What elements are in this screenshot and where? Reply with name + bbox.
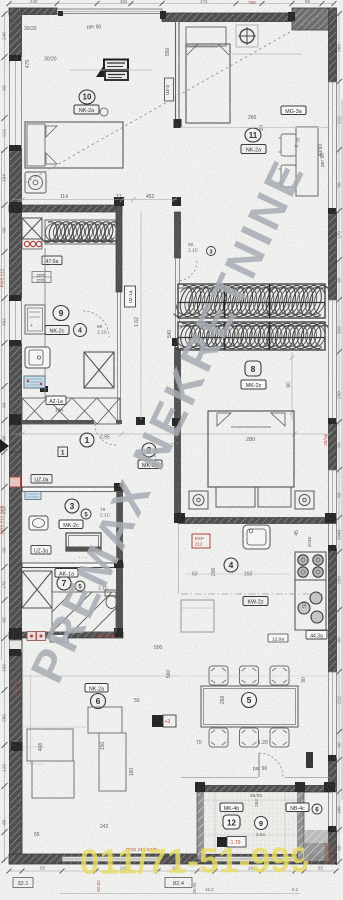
small tag circle right strip <box>312 804 322 814</box>
junction room10/11 divider foot <box>174 119 182 128</box>
brown speckle strip bottom-right wall <box>325 843 333 864</box>
interior wall room10/kitchen horizontal <box>9 205 122 212</box>
bathtub <box>66 533 101 560</box>
bed room 11 headboard <box>186 27 226 46</box>
living room west guide line <box>178 523 180 594</box>
kitchen top crossed box (shaft) <box>22 218 42 239</box>
bedroom/livingroom horizontal wall <box>178 518 336 524</box>
small spec boxes 1555 <box>32 272 51 283</box>
inner edge line left wall lower <box>22 638 24 854</box>
shower crossed box <box>22 571 52 608</box>
washing machine blue kitchen <box>24 376 45 388</box>
bedroom-side corridor wall vertical upper <box>175 212 181 258</box>
services block right wall lower <box>117 487 123 638</box>
terrace guide lines <box>204 792 298 854</box>
terrace top wall <box>197 786 331 793</box>
dashed diagonal construction line <box>25 8 332 183</box>
kitchen door dim text <box>55 324 108 414</box>
room 2 name box MK-2b <box>138 460 162 469</box>
wc bottom wall <box>9 632 123 638</box>
wc dim texts <box>98 580 109 592</box>
room 5 label circle <box>242 693 257 708</box>
kitchen counter front edge <box>44 248 46 398</box>
total dim box 32.1 <box>13 878 33 888</box>
chair b room 11 <box>279 165 297 187</box>
label box UZ-0a <box>31 475 52 484</box>
outer wall left: solid segments <box>10 8 22 57</box>
total dim box 82.4 <box>165 878 192 888</box>
bed footer left <box>216 487 255 507</box>
dimension strip right edge <box>336 11 342 866</box>
door tag circle 4 kitchen <box>74 324 87 337</box>
vertical label box room11 left <box>165 78 174 101</box>
closet line room 11 <box>232 53 302 55</box>
bed footer right <box>258 487 291 507</box>
terrace floor texture <box>204 792 298 854</box>
room 1 label circle <box>80 433 94 447</box>
sofa part a room 6 <box>27 729 73 761</box>
label box 44.3a right <box>306 631 327 640</box>
terrace door swing arc <box>259 753 283 777</box>
room 8 name box MK-2z <box>241 380 266 389</box>
dining dims <box>196 677 307 746</box>
room 3 label circle <box>65 499 79 513</box>
room 11 name box NK-2a <box>241 145 266 154</box>
wardrobe row 2 room 8 <box>169 321 336 352</box>
room 4 name box KW-2z <box>243 597 268 606</box>
label box UZ-3a <box>31 546 51 555</box>
room 12 name box MK-4b <box>220 803 243 812</box>
dim line room10 bottom <box>12 197 177 202</box>
terrace left wall <box>197 792 204 860</box>
section marker triangle left edge <box>0 439 9 453</box>
interior wall services vertical (kitchen/corridor) <box>116 205 122 292</box>
room 11 label circle <box>245 128 261 142</box>
sofa part b room 6 <box>32 761 74 798</box>
bedroom-side corridor wall thin middle <box>176 258 180 348</box>
label box 47.0a <box>42 256 62 265</box>
outer wall right: solid segments <box>329 8 337 82</box>
fold-out bed hatched room 7 <box>52 592 116 632</box>
room 9 label circle <box>53 306 69 321</box>
wardrobe row 1 room 8 <box>168 283 337 319</box>
kitchen stove red burners <box>22 239 42 249</box>
room 10 label circle <box>79 90 95 104</box>
bed room 11 <box>186 44 230 123</box>
kitchen door swing arc <box>83 311 109 337</box>
section dash-dot line living <box>181 593 330 595</box>
dimension line top edge <box>7 1 337 6</box>
door swing arc hall to bedroom <box>152 443 178 469</box>
coffee table room 6 <box>88 707 122 733</box>
red service box at left wall bathroom <box>10 477 21 487</box>
guide line room 11 foot <box>180 127 330 129</box>
hall dimension line <box>12 432 332 437</box>
dim texts room 10 <box>24 25 155 201</box>
living room south line with door gap <box>181 777 330 779</box>
guide line dining extension <box>180 675 330 677</box>
bathroom dim texts <box>100 507 111 519</box>
dining chairs bottom row <box>209 728 289 747</box>
name box MG-3a room 11 <box>281 106 306 115</box>
room 6 name box NK-2a <box>85 684 108 693</box>
double bed bedroom <box>208 411 294 487</box>
bathroom outline inner <box>22 492 117 564</box>
kitchen closet arc row <box>39 220 127 245</box>
room10/room11 divider wall <box>176 14 180 127</box>
vertical label box UZ-1a on corridor wall <box>125 286 136 307</box>
outer wall right: window segments <box>329 82 337 211</box>
room 12 label circle <box>223 815 240 829</box>
kitchen sink room 4 <box>243 525 270 549</box>
room 3 name box MK-2c <box>59 520 83 529</box>
tag box 1 hall <box>58 447 68 457</box>
outer wall top-right segment <box>162 13 292 22</box>
chair a room 11 <box>279 134 297 156</box>
fridge/dishwasher unit <box>25 305 45 334</box>
dining chairs top row <box>209 666 289 685</box>
room 4 label circle <box>224 558 238 572</box>
label box AZ-1a on counter <box>46 396 66 405</box>
red EXP box living <box>192 534 210 548</box>
dim guide line room4 <box>186 573 290 575</box>
tag circle 5 bathroom <box>81 509 91 519</box>
terrace right wall <box>298 792 305 860</box>
kitchen bottom counter crossed band <box>22 398 120 424</box>
door frame column near terrace <box>306 752 313 768</box>
terrace level black box <box>217 837 246 848</box>
stove island crossed square kitchen <box>84 352 114 388</box>
kitchen sink <box>25 347 50 368</box>
dim line bedroom right <box>290 352 295 420</box>
room 7 name box AK-1a <box>55 569 78 578</box>
room 7 label circle <box>57 576 71 590</box>
red stamp label at left wall <box>13 676 24 695</box>
room 9 name box NK-2c <box>45 326 69 335</box>
ceiling light room 11 <box>236 25 258 47</box>
window top (room 10) <box>57 9 162 14</box>
label box on wall below wc <box>50 635 68 643</box>
bathroom top wall <box>22 487 123 492</box>
stool with lamp room 10 <box>25 172 46 193</box>
bed room 10 <box>25 122 123 168</box>
outer wall left: base band <box>10 8 22 864</box>
bottom-right corner dark strip <box>304 843 329 861</box>
outer wall top-right corner block <box>292 8 334 30</box>
outer wall top-left segment <box>9 8 57 15</box>
bathroom/wc divider wall <box>22 563 123 568</box>
room 6 guide lines <box>22 727 88 764</box>
bathroom sink <box>29 516 48 530</box>
door swing arc kitchen to hall <box>95 424 116 445</box>
dimension line bottom edge <box>7 869 339 894</box>
room 6 label circle <box>91 694 106 709</box>
room 8 label circle <box>245 361 261 376</box>
small tag circle near room10 label <box>100 108 108 116</box>
black step box room5/6 <box>152 715 176 727</box>
kitchen sink bowls unit room 4 <box>295 580 326 630</box>
counter bottom line room4 <box>295 629 330 631</box>
room 2 label circle <box>142 443 156 457</box>
corridor center line <box>140 212 142 420</box>
washer boxes on wc bottom wall <box>27 632 46 641</box>
nightstand left with lamp <box>189 491 208 509</box>
dimension strip left edge <box>2 11 8 863</box>
room 4 dims <box>192 568 308 608</box>
kitchen island room 4 <box>181 600 214 632</box>
side strip right of terrace hatch <box>304 830 329 856</box>
toilet <box>105 590 118 609</box>
tag circle 3 with dims corridor <box>188 242 216 256</box>
label box 12.0a <box>268 634 288 642</box>
outer wall right: base band <box>329 8 337 864</box>
guide line room 6 top <box>22 675 180 677</box>
nightstand right with lamp <box>295 491 314 509</box>
bedroom-side corridor wall vertical lower <box>175 348 181 520</box>
name box NB-4c terrace <box>286 803 309 812</box>
phone number overlay <box>80 840 310 881</box>
kitchen bottom wall with door gap <box>9 420 122 424</box>
room 6 dims <box>34 670 172 838</box>
tag circle 9 terrace <box>255 817 268 830</box>
desk room 11 <box>296 127 318 196</box>
room 10 name box NK-2a <box>74 105 99 114</box>
ac unit black label box room 10 <box>96 60 128 81</box>
tag circle 5 wc <box>75 581 85 591</box>
washing machine blue bathroom <box>25 492 41 500</box>
terrace dims <box>250 793 266 838</box>
guide line through ac unit <box>70 69 152 71</box>
kitchen hob unit room 4 <box>295 552 326 580</box>
outer wall left: window segments <box>10 57 22 148</box>
room 11 dims <box>165 48 324 157</box>
dining table <box>201 686 298 727</box>
door swing arc corridor to wardrobe room <box>177 261 197 281</box>
tv cabinet room 6 <box>99 733 126 791</box>
outer wall bottom band <box>9 854 336 864</box>
